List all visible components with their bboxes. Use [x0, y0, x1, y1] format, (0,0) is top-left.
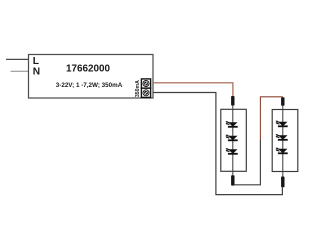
- module 2 box: [272, 110, 298, 172]
- wire box to bottom connector: [232, 171, 234, 175]
- wire red + from driver to module 1 top: [153, 83, 233, 96]
- wire link module1 bottom to module2 top (dark part): [235, 140, 261, 185]
- wire black - from driver, down and along bottom to module 2 bottom: [153, 93, 282, 195]
- svg-text:350mA: 350mA: [135, 80, 141, 97]
- LED D6: [276, 148, 288, 154]
- terminal block screw - (bottom): [141, 88, 150, 97]
- connector bottom module 2: [281, 177, 284, 188]
- LED D2: [226, 135, 238, 141]
- terminal block screw + (top): [141, 79, 150, 88]
- connector top module 2: [281, 97, 284, 106]
- wire terminal to box: [282, 106, 284, 110]
- module 1 box: [221, 109, 247, 171]
- connector top module 1: [231, 96, 234, 106]
- connector bottom module 1: [231, 175, 234, 185]
- wire link module1 bottom to module2 top (red part): [260, 97, 282, 140]
- LED driver U1 box 17662000: [29, 55, 154, 99]
- LED D3: [226, 148, 238, 154]
- wire L input: [6, 58, 29, 60]
- svg-text:N: N: [33, 67, 40, 78]
- internal wire module 1: [232, 109, 234, 171]
- svg-text:3-22V; 1 -7,2W; 350mA: 3-22V; 1 -7,2W; 350mA: [56, 82, 123, 89]
- LED D5: [276, 134, 288, 140]
- LED D1: [226, 121, 238, 127]
- wire N input: [11, 70, 29, 72]
- LED D4: [276, 121, 288, 127]
- LED module 2: [272, 97, 298, 187]
- wire box to bottom connector: [282, 172, 284, 177]
- internal wire module 2: [282, 110, 284, 172]
- wire terminal to box: [232, 106, 234, 110]
- svg-text:17662000: 17662000: [66, 63, 110, 74]
- svg-text:L: L: [33, 56, 39, 67]
- LED module 1: [221, 96, 247, 186]
